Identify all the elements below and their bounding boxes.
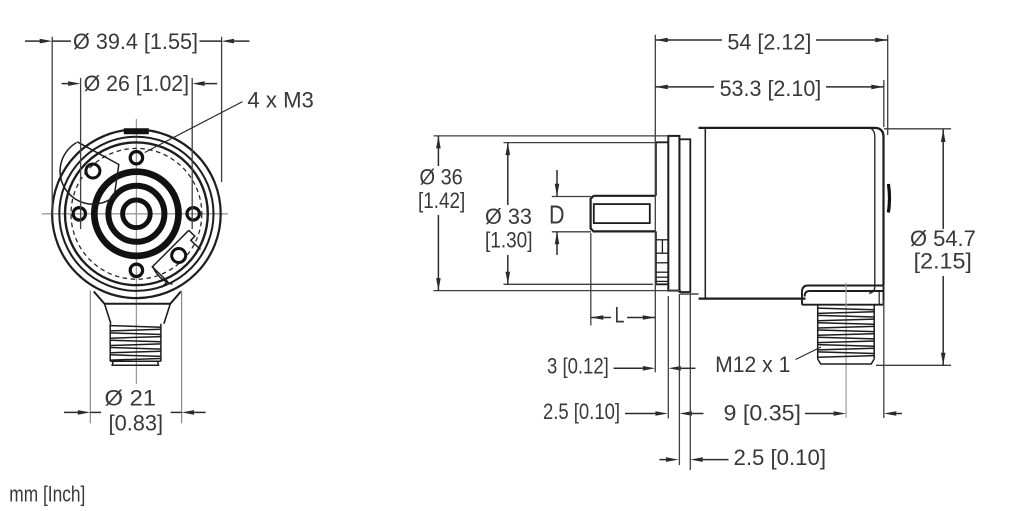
dim Ø39.4 text: [73, 29, 198, 54]
body front cap line: [704, 128, 706, 299]
svg-text:Ø 54.7: Ø 54.7: [910, 226, 976, 251]
dim 53.3 line and arrows: [655, 85, 884, 90]
dim 53.3 text: [720, 76, 822, 101]
connector bottom cap: [110, 361, 161, 365]
dim D arrows: [555, 170, 560, 255]
dim Ø33 text: [485, 204, 533, 252]
clamp top-left arc: [60, 142, 119, 204]
clamp bottom-right arc: [153, 266, 173, 284]
mounting hole bottom: [130, 264, 142, 276]
svg-text:4 x M3: 4 x M3: [247, 88, 314, 113]
dim Ø39.4 line and arrows: [25, 39, 249, 44]
svg-text:Ø 33: Ø 33: [485, 204, 532, 229]
svg-text:M12 x 1: M12 x 1: [715, 352, 790, 377]
dim 2.5 mid extension line: [678, 294, 680, 465]
dim 9 text: [724, 401, 802, 426]
shaft outline: [591, 196, 656, 232]
dim Ø33 line and arrows: [506, 143, 511, 285]
svg-text:Ø 39.4 [1.55]: Ø 39.4 [1.55]: [73, 29, 198, 54]
dim Ø36 extension lines: [434, 136, 682, 291]
M12 thread side: [818, 305, 875, 359]
dim 3 text: [547, 354, 609, 379]
thick annulus: [94, 172, 178, 256]
front view vertical centerline: [135, 119, 137, 384]
connector neck taper: [105, 304, 171, 324]
dim Ø36 text: [418, 164, 465, 213]
dim Ø39.4 extension lines: [52, 37, 221, 215]
dim 3 line and arrows: [614, 366, 696, 371]
connector elbow: [802, 286, 884, 305]
dim Ø54.7 extension lines: [876, 129, 951, 365]
second slab: [679, 139, 690, 292]
svg-text:2.5 [0.10]: 2.5 [0.10]: [734, 445, 827, 470]
dim Ø26 line and arrows: [62, 81, 218, 86]
dim Ø54.7 line and arrows: [941, 130, 946, 366]
svg-text:9 [0.35]: 9 [0.35]: [724, 401, 802, 426]
dim 2.5 mid line and arrows: [625, 411, 704, 416]
dim D text: [549, 200, 565, 230]
mounting hole top: [130, 152, 142, 164]
flange slab Ø36: [668, 136, 679, 291]
svg-text:[0.83]: [0.83]: [109, 410, 164, 435]
svg-text:[2.15]: [2.15]: [914, 248, 972, 273]
label 4xM3 leader: [145, 102, 243, 153]
mounting hole left: [73, 208, 85, 220]
dim Ø36 line and arrows: [436, 136, 441, 291]
dim L line and arrows: [591, 315, 656, 320]
svg-text:2.5 [0.10]: 2.5 [0.10]: [543, 399, 620, 424]
svg-text:mm [Inch]: mm [Inch]: [9, 482, 85, 507]
dim 2.5 mid text: [543, 399, 620, 424]
body outline: [699, 128, 884, 299]
svg-text:Ø 26 [1.02]: Ø 26 [1.02]: [84, 71, 190, 96]
front view outer circle C1: [52, 130, 221, 299]
dim Ø21 extension lines: [90, 291, 181, 424]
bolt circle dashed: [71, 148, 202, 279]
pilot clamp stack detail: [656, 240, 668, 282]
M12 centerline: [845, 283, 847, 418]
dim Ø26 text: [84, 71, 190, 96]
dim 53.3 extension line right: [883, 80, 885, 418]
svg-text:3 [0.12]: 3 [0.12]: [547, 354, 609, 379]
label 4xM3 text: [247, 88, 314, 113]
dim 54 extension lines: [655, 35, 887, 373]
dim Ø54.7 text: [910, 226, 976, 274]
svg-text:54 [2.12]: 54 [2.12]: [727, 30, 811, 55]
M12 thread bottom cap: [818, 359, 875, 364]
body seam mark: [888, 184, 889, 213]
clamp top-left ring: [86, 164, 100, 178]
dim Ø21 line and arrows: [64, 410, 206, 415]
dim 2.5 bottom text: [734, 445, 827, 470]
front view circle C2: [59, 137, 213, 291]
top index tick: [124, 128, 149, 134]
front view circle C3: [65, 142, 208, 285]
dim Ø26 extension lines: [81, 78, 193, 229]
dim 54 line and arrows: [655, 38, 887, 43]
dim Ø33 extension lines: [504, 143, 657, 285]
svg-text:Ø 21: Ø 21: [105, 386, 157, 411]
shaft inner rectangle: [594, 204, 650, 223]
middle ring: [108, 186, 164, 242]
dim 2.5 bottom extension line: [689, 294, 691, 470]
inner ring: [123, 200, 151, 228]
clamp bottom-right ring: [172, 249, 186, 263]
dim L extension line: [590, 233, 592, 326]
body end cap inner line: [869, 128, 875, 293]
label M12x1 text: [715, 352, 790, 377]
slab lip line: [680, 293, 699, 295]
pilot cylinder Ø33: [656, 142, 668, 284]
connector thread front: [110, 324, 161, 362]
svg-text:Ø 36: Ø 36: [420, 164, 463, 189]
mounting hole right: [187, 208, 199, 220]
dim 54 text: [727, 30, 811, 55]
svg-text:[1.30]: [1.30]: [485, 227, 533, 252]
dim 2.5 bottom line and arrows: [660, 457, 729, 462]
svg-text:53.3 [2.10]: 53.3 [2.10]: [720, 76, 822, 101]
svg-text:[1.42]: [1.42]: [418, 188, 465, 213]
dim D extension lines: [552, 197, 591, 232]
dim L text: [615, 303, 625, 328]
svg-text:D: D: [549, 200, 565, 230]
front view horizontal centerline: [42, 213, 228, 215]
svg-text:L: L: [615, 303, 625, 328]
clamp bottom-right band: [152, 230, 200, 287]
label M12x1 leader: [796, 347, 822, 360]
connector neck shoulder: [94, 292, 181, 304]
dim Ø21 text: [105, 386, 164, 436]
connector elbow inner right line: [878, 291, 880, 305]
dim 3 extension line: [667, 296, 669, 418]
dim 9 line and arrows: [805, 411, 902, 416]
units note: [9, 482, 85, 507]
